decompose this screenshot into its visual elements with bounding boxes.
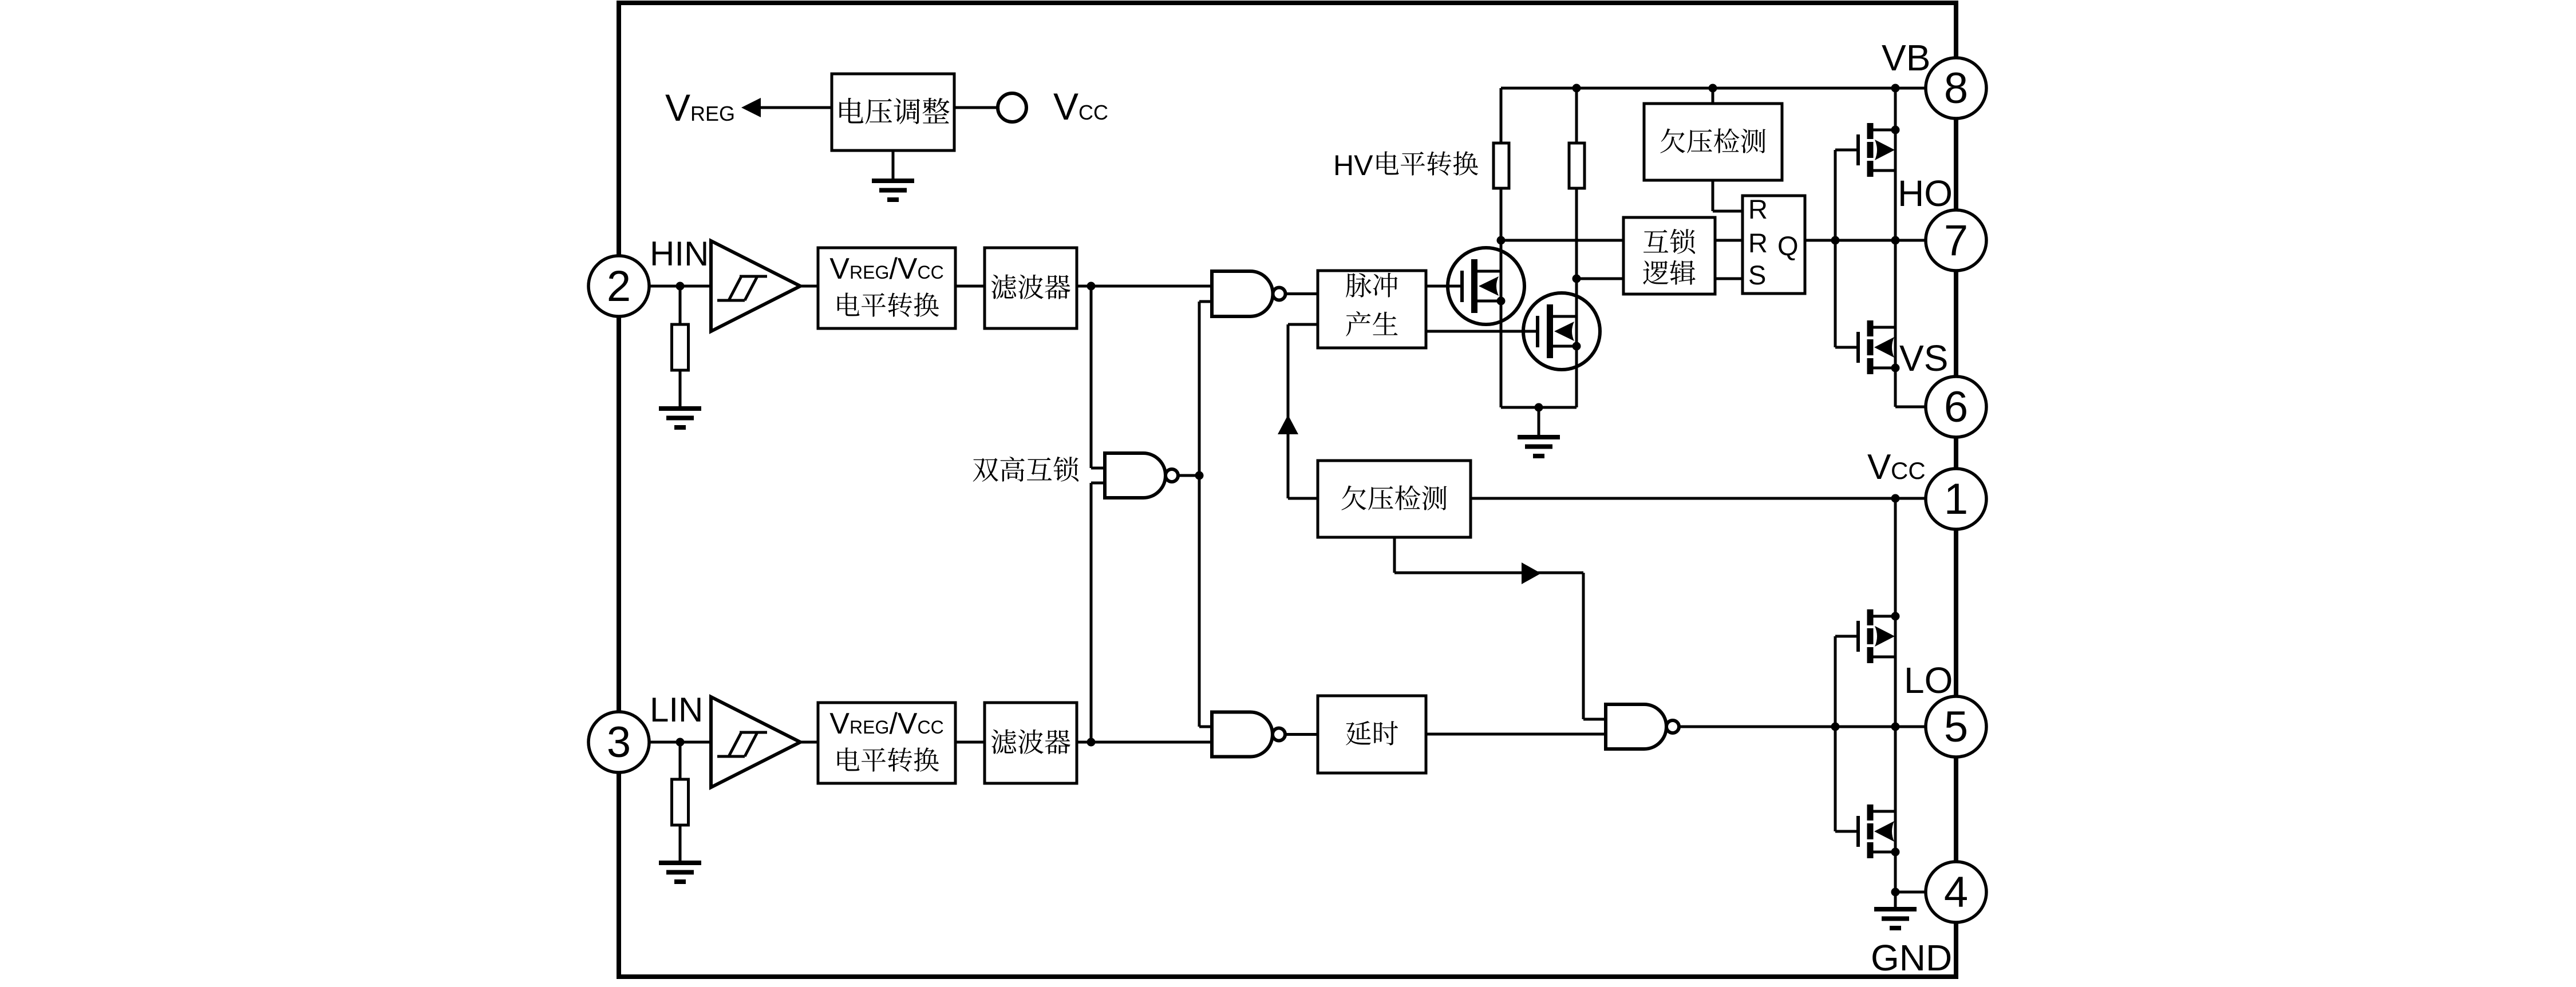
wire R2 bottom through M2	[1575, 188, 1578, 407]
node VREG label	[665, 86, 735, 129]
svg-text:R: R	[1748, 194, 1768, 224]
VCC terminal circle	[998, 93, 1026, 122]
node VB label	[1882, 37, 1930, 78]
block 脉冲产生 pulse generator	[1318, 271, 1426, 348]
wire R1 top	[1500, 88, 1503, 143]
wire HO output rail	[1895, 88, 1926, 407]
svg-text:2: 2	[607, 262, 631, 311]
wire R1 bottom through M1 to ground rail	[1500, 188, 1503, 407]
wire U2 to level shift (LIN)	[800, 741, 818, 744]
node M1 drain junction	[1497, 236, 1506, 245]
wire VB rail (top)	[1501, 87, 1926, 90]
wire VB to UV detect	[1712, 88, 1714, 104]
block VREG/VCC 电平转换 (HIN level shift)	[818, 248, 955, 328]
pin 6 VS	[1926, 376, 1986, 437]
transistor M3 (HO high side)	[1835, 123, 1895, 177]
wire pin3 to schmitt U2	[649, 741, 711, 744]
block VREG/VCC 电平转换 (LIN level shift)	[818, 703, 955, 783]
svg-text:5: 5	[1944, 703, 1968, 751]
svg-text:VB: VB	[1882, 37, 1930, 78]
svg-text:7: 7	[1944, 216, 1968, 265]
resistor R1 (HV level shift)	[1494, 143, 1509, 188]
node LIN label	[650, 691, 703, 729]
resistor R2 (HV level shift)	[1569, 143, 1585, 188]
wire U1 to level shift (HIN)	[800, 285, 818, 288]
node VCC-rail junction	[1891, 494, 1900, 503]
node VB rail junction	[1891, 84, 1900, 93]
wire to ground (output stage)	[1894, 892, 1897, 909]
svg-text:8: 8	[1944, 64, 1968, 113]
block 欠压检测 UV detect (high side)	[1644, 104, 1782, 180]
wire to ground (level shift)	[1538, 407, 1540, 437]
wire interlock to RS latch R	[1715, 239, 1743, 242]
node HO junction	[1891, 236, 1900, 245]
wire junction up to G1 input	[1199, 302, 1212, 475]
NAND gate G3 (LIN path)	[1212, 712, 1285, 757]
node GND junction	[1891, 888, 1900, 897]
svg-text:HV: HV	[1333, 149, 1373, 181]
node GND label	[1871, 937, 1952, 978]
svg-text:REG: REG	[690, 102, 735, 125]
ground (level shift)	[1518, 437, 1560, 456]
pin 3 LIN	[588, 712, 649, 772]
node junction LIN filtered	[1087, 738, 1096, 747]
node M1 source junction	[1497, 297, 1506, 306]
pin 5 LO	[1926, 696, 1986, 757]
wire junction down to G3 input	[1199, 475, 1212, 727]
wire HO gate riser	[1834, 150, 1837, 347]
arrow up (UV to pulse gen)	[1278, 415, 1298, 434]
RS latch U3	[1743, 194, 1805, 294]
resistor R (LIN pulldown)	[672, 779, 689, 825]
wire filter to NAND G1 (HIN)	[1077, 285, 1212, 288]
wire to resistor R (LIN)	[679, 742, 682, 779]
pin 1 VCC	[1926, 469, 1986, 529]
transistor M2 (level shift)	[1523, 293, 1600, 370]
wire UV(VCC) up-feedback to pulse generator	[1288, 324, 1318, 498]
node M4 source junction	[1891, 364, 1900, 372]
pin 4 GND	[1926, 862, 1986, 922]
node VB-UV junction	[1709, 84, 1717, 93]
transistor M1 (level shift)	[1448, 248, 1524, 324]
wire LO gate riser	[1834, 636, 1837, 831]
svg-text:HO: HO	[1898, 173, 1953, 214]
block 电压调整 voltage regulator	[832, 74, 954, 150]
node LO junction	[1891, 723, 1900, 731]
wire ground rail (level shift)	[1501, 406, 1577, 409]
block 延时 delay	[1318, 696, 1426, 773]
node LO gate junction	[1831, 723, 1840, 731]
wire level shift to filter (HIN)	[955, 285, 985, 288]
node M2 source junction	[1573, 342, 1581, 351]
wire R2 top	[1575, 88, 1578, 143]
svg-text:6: 6	[1944, 383, 1968, 431]
pin 7 HO	[1926, 210, 1986, 271]
wire UV detect to VCC pin	[1471, 497, 1926, 500]
block 滤波器 filter (LIN)	[985, 703, 1077, 783]
svg-text:V: V	[1053, 85, 1078, 128]
wire resistor to ground (LIN)	[679, 825, 682, 863]
node junction HIN filtered	[1087, 282, 1096, 291]
wire pulse gen to M1 gate	[1426, 285, 1462, 288]
NAND gate G4 (LO driver)	[1606, 704, 1679, 749]
ground (LIN pulldown)	[659, 863, 701, 882]
node junction R2 top	[1573, 84, 1581, 93]
svg-text:HIN: HIN	[650, 235, 709, 273]
ground (output stage)	[1874, 909, 1917, 928]
svg-text:GND: GND	[1871, 937, 1952, 978]
block 互锁逻辑 interlock logic	[1623, 217, 1715, 294]
NAND gate G2 (dual-high interlock)	[1105, 453, 1178, 498]
NAND gate G1 (HIN path)	[1212, 271, 1286, 316]
svg-text:3: 3	[607, 718, 631, 767]
transistor M4 (HO low side)	[1835, 320, 1895, 374]
svg-text:VREG/VCC: VREG/VCC	[829, 252, 943, 286]
node M2 drain junction	[1573, 275, 1581, 283]
schmitt buffer U1 (HIN)	[711, 241, 800, 331]
node HO label	[1898, 173, 1953, 214]
node VS label	[1899, 338, 1948, 379]
wire interlock to RS latch S	[1715, 278, 1743, 280]
svg-text:V: V	[665, 86, 690, 129]
svg-text:Q: Q	[1777, 231, 1799, 261]
pin 2 HIN	[588, 256, 649, 316]
resistor R (HIN pulldown)	[672, 324, 689, 370]
svg-text:LO: LO	[1904, 660, 1953, 701]
svg-text:CC: CC	[1078, 101, 1108, 124]
node junction HIN-R pulldown	[676, 282, 685, 291]
node VCC label (top)	[1053, 85, 1108, 128]
node Q-gate junction	[1831, 236, 1840, 245]
node M6 source junction	[1891, 848, 1900, 857]
wire UV detect down to G4	[1394, 537, 1606, 719]
svg-text:VS: VS	[1899, 338, 1948, 379]
node ground rail junction	[1535, 403, 1543, 412]
wire regulator to VCC terminal	[954, 106, 997, 109]
node junction LIN-R pulldown	[676, 738, 685, 747]
node G2 output junction	[1195, 471, 1204, 480]
svg-text:CC: CC	[1891, 457, 1926, 484]
wire pulse gen to M2 gate	[1426, 330, 1539, 333]
wire regulator to ground	[892, 150, 895, 181]
wire G3 to delay	[1285, 733, 1318, 736]
wire M2 drain to interlock logic	[1577, 278, 1623, 280]
ground (HIN pulldown)	[659, 409, 701, 427]
node LO label	[1904, 660, 1953, 701]
node HIN label	[650, 235, 709, 273]
label 双高互锁	[973, 457, 1079, 482]
ground (regulator)	[872, 181, 914, 200]
wire VREG arrow to regulator	[761, 106, 832, 109]
svg-text:4: 4	[1944, 868, 1968, 917]
wire M1 drain to interlock logic	[1501, 239, 1623, 242]
wire pin2 to schmitt U1	[649, 285, 711, 288]
node M5 drain junction	[1891, 612, 1900, 621]
label HV电平转换	[1333, 149, 1478, 181]
svg-text:V: V	[1867, 447, 1891, 487]
wire LO output rail	[1895, 498, 1926, 892]
svg-text:VREG/VCC: VREG/VCC	[829, 707, 943, 740]
wire filter to NAND G3 (LIN)	[1077, 741, 1212, 744]
node M3 drain junction	[1891, 126, 1900, 134]
block 欠压检测 UV detect (VCC side)	[1318, 461, 1471, 537]
node VCC label	[1867, 447, 1926, 487]
wire G1 to pulse generator	[1286, 292, 1318, 295]
wire LIN node up to G2 input	[1091, 483, 1105, 742]
wire delay to G4	[1426, 733, 1606, 736]
svg-text:1: 1	[1944, 475, 1968, 524]
wire resistor to ground (HIN)	[679, 370, 682, 409]
wire Q output to HO drivers	[1805, 239, 1926, 242]
arrow to VREG	[741, 98, 761, 117]
wire HIN node down to G2 input	[1091, 286, 1105, 468]
wire level shift to filter (LIN)	[955, 741, 985, 744]
wire to resistor R (HIN)	[679, 286, 682, 324]
pin 8 VB	[1926, 58, 1986, 118]
transistor M6 (LO low side)	[1835, 804, 1895, 858]
svg-text:S: S	[1748, 260, 1766, 290]
arrow right (UV to G4)	[1522, 562, 1541, 584]
svg-text:LIN: LIN	[650, 691, 703, 729]
schmitt buffer U2 (LIN)	[711, 697, 800, 787]
wire UV detect to RS latch R input	[1713, 180, 1743, 211]
svg-text:R: R	[1748, 228, 1768, 258]
IC boundary box	[619, 3, 1956, 977]
block 滤波器 filter (HIN)	[985, 248, 1077, 328]
wire G4 to LO drivers	[1679, 726, 1926, 728]
transistor M5 (LO high side)	[1835, 609, 1895, 663]
wire G2 output to junction	[1178, 474, 1199, 477]
